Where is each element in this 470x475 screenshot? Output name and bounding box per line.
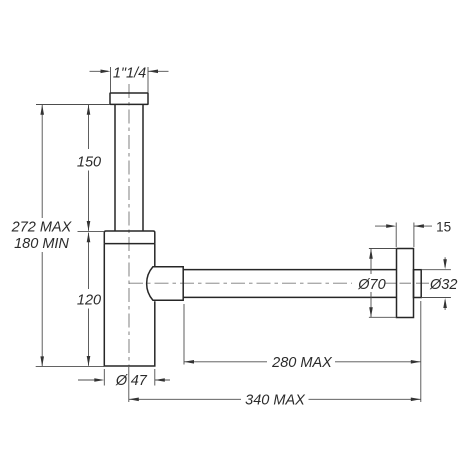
- dim 280 MAX line: [184, 361, 421, 363]
- body top ring nut: [104, 231, 155, 244]
- svg-text:Ø32: Ø32: [429, 277, 457, 293]
- wall flange rosette: [397, 249, 414, 318]
- dim 120 line: [88, 233, 90, 366]
- elbow outlet: [147, 267, 184, 301]
- svg-text:272 MAX: 272 MAX: [11, 220, 73, 236]
- dim Ø70 extension lines: [369, 249, 397, 318]
- extension line ring top (left): [78, 231, 105, 233]
- extension line cap bottom (left): [36, 104, 110, 106]
- centerline horizontal segment right of Ø70 text: [386, 282, 397, 284]
- svg-text:280 MAX: 280 MAX: [271, 355, 333, 371]
- centerline dash right of flange: [416, 282, 429, 284]
- dim Ø47 extension lines: [104, 369, 155, 386]
- wall stub pipe: [414, 270, 422, 298]
- dim 15 extension lines: [396, 223, 414, 248]
- centerline horizontal (pipe axis): [129, 282, 352, 284]
- dim 15 arrows: [375, 225, 432, 227]
- svg-text:340 MAX: 340 MAX: [245, 393, 306, 409]
- extension line pipe left end (280 MAX): [183, 304, 185, 365]
- extension line body axis down: [128, 367, 130, 402]
- dim Ø70 line: [370, 249, 372, 317]
- dim 1"1/4 extension lines: [111, 67, 149, 93]
- tailpiece cap nut: [110, 93, 148, 104]
- dim 340 MAX line: [129, 398, 421, 400]
- centerline dash inside flange: [400, 282, 412, 284]
- tailpiece vertical pipe: [115, 105, 143, 232]
- trap body: [104, 244, 155, 366]
- svg-text:180 MIN: 180 MIN: [14, 236, 69, 252]
- dim Ø32 extension lines: [421, 270, 451, 298]
- horizontal waste pipe: [183, 270, 396, 298]
- svg-text:Ø70: Ø70: [357, 277, 385, 293]
- svg-text:120: 120: [77, 292, 101, 308]
- dim Ø47 arrows: [78, 379, 170, 381]
- dim 272 MAX 180 MIN line: [41, 105, 43, 366]
- svg-text:1"1/4: 1"1/4: [113, 66, 146, 82]
- svg-text:47: 47: [131, 373, 148, 389]
- centerline vertical (body axis): [128, 84, 130, 366]
- svg-text:15: 15: [436, 219, 451, 234]
- dim Ø32 arrows: [444, 257, 446, 310]
- extension line body bottom (left): [36, 366, 104, 368]
- extension line stub right (280/340 MAX): [420, 301, 422, 402]
- svg-text:Ø: Ø: [115, 373, 128, 389]
- dim 1"1/4 arrows: [90, 70, 169, 72]
- svg-text:150: 150: [77, 154, 101, 170]
- dim 150 line: [88, 105, 90, 231]
